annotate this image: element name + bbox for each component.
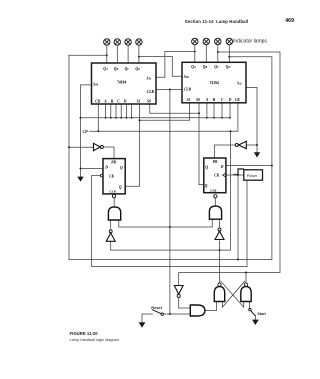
wire CLR bubble to AND-left (113, 198, 115, 208)
wire CK-left stub (97, 104, 99, 131)
wire latch-R output up (245, 273, 247, 283)
svg-text:SSL: SSL (237, 82, 243, 86)
wire L1 clear-inverter tie line (111, 249, 231, 251)
IC U1 74194 left (92, 63, 157, 104)
wire SSL-right pull (246, 88, 257, 153)
wire CP line (90, 130, 238, 132)
ground arrow start (252, 320, 259, 325)
wire pulse node down (237, 175, 239, 260)
inverter mid-left (109, 230, 112, 233)
wire parallel-input bus (81, 117, 231, 119)
wire latch-L input stub (221, 302, 223, 308)
ground arrow reset (139, 322, 146, 328)
wire B stub left (110, 104, 112, 118)
wire extra stub left 2 (131, 104, 133, 118)
wire reset to ground (142, 314, 153, 322)
svg-text:CP: CP (83, 129, 89, 134)
svg-text:SIR: SIR (184, 75, 189, 79)
lamp 2 (114, 39, 120, 45)
lamp 6 (203, 38, 209, 44)
svg-text:B: B (212, 98, 216, 102)
svg-text:CLR: CLR (147, 90, 155, 94)
wire D-right FF (226, 165, 272, 167)
lamp 5 (192, 38, 198, 44)
latch NAND N2 (241, 287, 251, 302)
ground arrow left FF D (77, 177, 83, 182)
flip-flop U3 left (103, 159, 125, 194)
IC U2 74194 right (182, 62, 246, 103)
svg-text:Q: Q (120, 166, 123, 170)
svg-text:PR: PR (213, 160, 218, 164)
wire S0 net (150, 104, 199, 113)
wire CK-left FF net (92, 176, 248, 267)
svg-text:C: C (117, 100, 120, 104)
lamp 8 (226, 38, 232, 44)
wire QC-right to right wall (218, 52, 280, 271)
wire start switch stub (248, 302, 250, 309)
wire CLR jumper between ICs (156, 89, 182, 91)
wire left outer vertical (68, 55, 70, 259)
svg-text:QC: QC (214, 65, 219, 69)
AND gate A1 (left CLR) (108, 207, 120, 220)
lamp 4 (136, 39, 142, 45)
svg-text:QB: QB (203, 65, 208, 69)
svg-text:S1: S1 (187, 98, 191, 102)
wire CK-right stub (237, 103, 239, 132)
indicator lamps left group (104, 39, 142, 45)
wire PR-left (104, 147, 114, 159)
wire S0 / Q'-right vertical (199, 103, 204, 185)
wire start to ground (254, 316, 256, 320)
wire inverter-right input (246, 144, 257, 146)
wire QA-right to SSL-left (156, 52, 195, 78)
svg-text:QD: QD (135, 67, 140, 71)
svg-text:Start: Start (257, 312, 266, 316)
svg-text:A: A (205, 98, 209, 102)
svg-text:Q: Q (205, 165, 208, 169)
wire S1 / Q'-left vertical (125, 104, 139, 186)
wire C stub right (221, 103, 223, 118)
svg-text:S0: S0 (147, 100, 151, 104)
wire inverter-left input (69, 146, 94, 148)
svg-text:CLR: CLR (184, 88, 192, 92)
svg-text:QD: QD (226, 65, 231, 69)
AND gate A2 (right CLR) (209, 206, 221, 219)
reset switch (161, 313, 163, 315)
svg-text:SSL: SSL (147, 77, 153, 81)
wire B stub right (213, 103, 215, 118)
svg-text:S1: S1 (137, 100, 141, 104)
svg-text:Pulser: Pulser (247, 174, 258, 178)
wire cross-couple diagonal A (221, 281, 244, 307)
labels (83, 65, 243, 193)
CLR bubble left FF (112, 195, 115, 198)
wire QA-left to left wall (69, 54, 107, 56)
svg-text:QA: QA (191, 65, 196, 69)
lamp stems (107, 45, 230, 63)
svg-text:74194: 74194 (210, 81, 219, 85)
wire QD-left to SIR-right (139, 57, 182, 77)
wire QD-right down right side (229, 57, 272, 260)
svg-text:A: A (103, 100, 107, 104)
svg-text:74194: 74194 (117, 81, 126, 85)
wire AND-right input stub (219, 219, 221, 228)
svg-text:QA: QA (103, 67, 108, 71)
svg-text:Indicator lamps: Indicator lamps (233, 39, 267, 45)
wire AND-left input stub (110, 220, 112, 230)
serve AND gate A3 (190, 305, 205, 316)
inverter right (to PR of U4) (239, 141, 247, 148)
wire D-left input (81, 168, 104, 170)
inverter left (to PR of U3) (94, 143, 101, 150)
svg-text:Q: Q (119, 185, 122, 189)
svg-text:CK: CK (109, 174, 114, 178)
wire latch-R input stub (243, 302, 245, 308)
wire cross-couple diagonal B (222, 281, 244, 307)
wire C stub left (115, 104, 117, 118)
svg-text:QB: QB (114, 67, 119, 71)
wire extra stub left (125, 104, 127, 118)
wire L2 left wall line (69, 259, 272, 261)
wire D stub left (120, 104, 122, 118)
wire shared AND input line (119, 219, 212, 227)
wire serve vertical from CP (230, 131, 232, 250)
svg-text:Reset: Reset (151, 305, 162, 310)
svg-text:D: D (220, 165, 224, 169)
svg-text:C: C (221, 98, 224, 102)
wire A stub right (206, 103, 208, 118)
svg-text:CK: CK (235, 98, 240, 102)
ground arrow right pull (254, 152, 260, 157)
svg-text:D: D (228, 98, 232, 102)
wire D stub right (229, 103, 231, 118)
svg-text:CK: CK (214, 174, 219, 178)
wire inv-mid-right input / latch out (219, 241, 221, 283)
wire serve AND output (205, 302, 217, 311)
start switch (249, 308, 251, 310)
svg-text:B: B (110, 100, 114, 104)
lamp 7 (215, 38, 221, 44)
latch NAND N1 (214, 287, 224, 302)
flip-flop U4 right (204, 158, 226, 193)
CK wedge right FF (223, 173, 226, 177)
wire CK-right FF from pulser (226, 174, 244, 176)
svg-text:D: D (104, 166, 108, 170)
wire SIR-left (81, 85, 92, 177)
wire serve inverter output (179, 298, 191, 308)
svg-text:CLR: CLR (210, 189, 216, 193)
svg-text:PR: PR (111, 161, 116, 165)
svg-text:CLR: CLR (110, 189, 116, 193)
svg-text:D: D (123, 100, 127, 104)
lamp 1 (104, 39, 110, 45)
pulser box (244, 170, 263, 180)
wire A stub left (105, 104, 107, 118)
header text (185, 19, 295, 24)
inverter mid-right (218, 228, 221, 231)
indicator lamps right group (192, 38, 233, 44)
svg-text:QC: QC (125, 67, 130, 71)
wire L4 right wall line (179, 271, 280, 285)
CK wedge left FF (100, 174, 103, 177)
wire PR-right (215, 145, 236, 158)
wire reset line (164, 313, 191, 315)
wire inv-mid-left input (110, 241, 112, 250)
wire S1 net (140, 103, 190, 121)
figure caption (70, 331, 98, 336)
svg-text:SIR: SIR (93, 83, 98, 87)
svg-text:Q: Q (205, 184, 208, 188)
svg-text:S0: S0 (196, 98, 200, 102)
svg-text:CK: CK (95, 100, 100, 104)
serve inverter (down) (174, 286, 183, 295)
pulse glyph (234, 169, 244, 175)
lamp 3 (125, 39, 131, 45)
wire CLR bubble to AND-right (214, 198, 216, 206)
wire CLR net vertical (169, 90, 171, 315)
CLR bubble right FF (214, 195, 217, 198)
